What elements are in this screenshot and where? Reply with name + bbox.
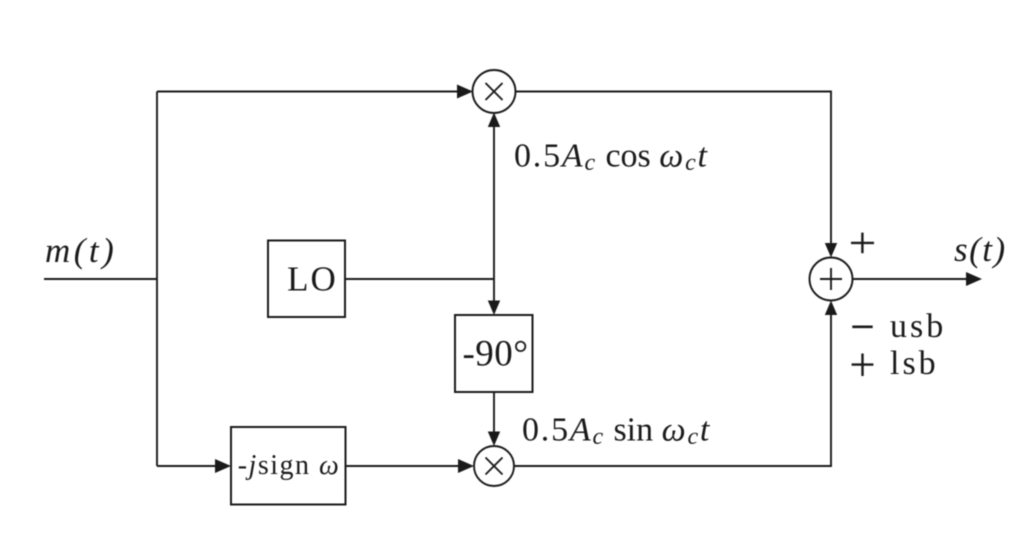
arrowhead into bottom multiplier left	[458, 459, 474, 473]
wire LO junction down to -90 box	[493, 279, 495, 301]
svg-text:0.5Ac cos ωct: 0.5Ac cos ωct	[514, 138, 709, 177]
svg-text:0.5Ac sin ωct: 0.5Ac sin ωct	[522, 412, 711, 451]
arrowhead into -j box	[215, 459, 231, 473]
multiplier (top mixer)	[473, 70, 516, 113]
wire -j box to bottom multiplier	[346, 465, 461, 467]
wire bottom horizontal from branch to -j box	[157, 465, 217, 467]
box -90deg	[455, 315, 533, 392]
arrowhead into top multiplier	[457, 85, 473, 99]
box -j sign w (Hilbert transformer)	[231, 427, 346, 505]
svg-text:s(t): s(t)	[954, 230, 1007, 269]
wire m(t) input	[44, 278, 157, 280]
label - (usb sign), drawn	[852, 325, 872, 328]
wire top horizontal to multiplier	[157, 91, 459, 93]
arrowhead up into summer bottom	[825, 301, 837, 316]
label + (lsb sign), drawn	[852, 354, 874, 377]
svg-text:lsb: lsb	[890, 345, 939, 382]
box LO	[268, 241, 345, 318]
arrowhead output s(t)	[966, 272, 982, 286]
svg-text:LO: LO	[287, 260, 338, 299]
wire left branch vertical	[156, 92, 158, 467]
arrowhead down into summer top	[825, 243, 837, 258]
svg-text:-jsign ω: -jsign ω	[238, 450, 341, 481]
arrowhead up into top multiplier bottom	[488, 113, 500, 128]
wire carrier vertical (LO junction up to top multiplier)	[493, 126, 495, 279]
arrowhead down into bottom multiplier	[488, 432, 500, 447]
multiplier (bottom mixer)	[474, 446, 514, 486]
summer	[810, 258, 853, 301]
wire top multiplier to right corner and down to summer	[515, 92, 831, 245]
label + (summer top sign), drawn	[851, 233, 874, 254]
wire summer output	[852, 278, 968, 280]
wire -90 box to bottom multiplier	[493, 392, 495, 432]
wire bottom multiplier to right corner and up to summer	[514, 314, 831, 466]
wire LO output	[345, 278, 494, 280]
svg-text:usb: usb	[890, 308, 946, 345]
svg-text:m(t): m(t)	[45, 231, 117, 270]
arrowhead down into -90 box	[488, 301, 500, 316]
svg-text:-90°: -90°	[462, 333, 528, 374]
